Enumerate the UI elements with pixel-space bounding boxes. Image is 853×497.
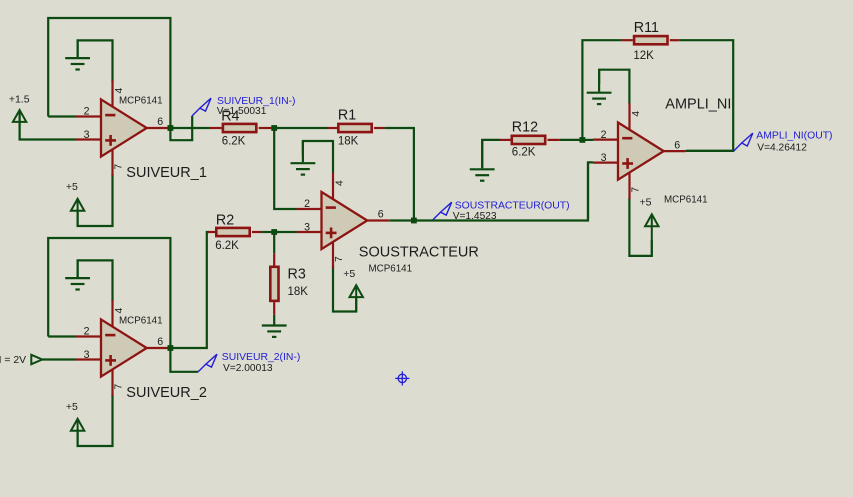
junction U1 output node (168, 125, 174, 131)
svg-text:R4: R4 (221, 109, 239, 125)
wire pin7 U4 to +5 (629, 198, 651, 256)
resistor R12 body (512, 136, 545, 144)
op-amp U4 pin 3 stub (593, 162, 618, 164)
op-amp U4 non-inverting mark (622, 158, 633, 169)
svg-text:7: 7 (334, 256, 345, 262)
op-amp U4 pin 2 stub (593, 139, 618, 141)
power +1.5 input wire (20, 111, 76, 140)
op-amp U2 pin 4 stub (332, 173, 334, 200)
power +5 terminal VP5 (645, 214, 658, 256)
svg-text:V=4.26412: V=4.26412 (757, 142, 807, 153)
op-amp U1 pin 7 stub (111, 149, 113, 176)
wire R4 left stub (210, 127, 222, 129)
wire output U4 (686, 150, 734, 152)
wire node to U2 pin3 (277, 231, 297, 233)
svg-text:+5: +5 (343, 268, 355, 280)
ground GND5 (R12) (470, 140, 495, 181)
svg-text:VI = 2V: VI = 2V (0, 355, 26, 366)
wire output U2 (389, 219, 412, 221)
svg-text:6: 6 (378, 209, 384, 221)
wire node to R1 (277, 127, 329, 129)
svg-text:SOUSTRACTEUR(OUT): SOUSTRACTEUR(OUT) (455, 200, 570, 211)
ground GND4 (U2 pin4) (291, 141, 316, 175)
svg-text:AMPLI_NI(OUT): AMPLI_NI(OUT) (756, 131, 832, 142)
svg-text:+5: +5 (640, 196, 652, 208)
svg-text:V=1.4523: V=1.4523 (453, 211, 497, 222)
wire probe stub U1 output (170, 116, 192, 140)
wire pin7 U1 to +5 (78, 174, 113, 226)
op-amp U2 (SOUSTRACTEUR) body triangle (322, 192, 368, 249)
svg-text:+5: +5 (66, 181, 78, 193)
svg-text:12K: 12K (633, 50, 654, 62)
wire R3 top stub (273, 233, 275, 253)
ground GND3 (R3) (262, 315, 287, 337)
op-amp U3 inverting mark (105, 334, 115, 337)
resistor R4 body (223, 124, 256, 132)
op-amp U1 non-inverting mark (105, 135, 116, 146)
wire R12 right stub (548, 139, 560, 141)
origin marker (395, 371, 409, 385)
svg-text:7: 7 (114, 163, 125, 169)
svg-text:+5: +5 (66, 401, 78, 413)
wire R1 right stub (374, 127, 385, 129)
ground GND1 (U1 pin4) (65, 40, 90, 69)
svg-text:SOUSTRACTEUR: SOUSTRACTEUR (359, 244, 479, 260)
power +5 terminal VP4 (350, 285, 363, 311)
power +1.5 terminal VP1 (13, 110, 26, 140)
op-amp U3 pin 3 stub (76, 358, 101, 360)
resistor R11 body (634, 36, 667, 44)
svg-text:18K: 18K (338, 136, 359, 148)
power +5 terminal VP2 (71, 199, 84, 226)
wire probe stub U3 output (170, 348, 198, 372)
resistor R2 body (216, 228, 249, 236)
svg-text:V=2.00013: V=2.00013 (223, 363, 273, 374)
op-amp U2 pin 2 stub (297, 208, 322, 210)
ground GND6 (U4 pin4) (587, 70, 612, 104)
wire U4 pin3 riser (587, 162, 589, 219)
svg-text:AMPLI_NI: AMPLI_NI (665, 97, 731, 113)
wire pin7 U3 to +5 (78, 394, 113, 446)
op-amp U3 pin 7 stub (111, 369, 113, 396)
wire junction to U4 pin2 (585, 139, 593, 141)
wire ground to pin4 U2 (303, 141, 333, 173)
op-amp U3 non-inverting mark (105, 355, 116, 366)
op-amp U1 pin 3 stub (76, 138, 101, 140)
wire R4 right stub (259, 127, 272, 129)
wire R11 left stub (622, 39, 633, 41)
svg-text:R12: R12 (512, 119, 538, 135)
svg-text:SUIVEUR_2: SUIVEUR_2 (126, 385, 207, 401)
svg-text:6: 6 (674, 139, 680, 151)
op-amp U2 pin 6 output stub (367, 219, 389, 221)
svg-text:+1.5: +1.5 (9, 94, 30, 106)
voltage probe SUIVEUR_1(IN-) (192, 98, 211, 116)
svg-text:2: 2 (304, 198, 310, 210)
junction U2 output node (411, 218, 417, 224)
svg-text:SUIVEUR_1: SUIVEUR_1 (126, 165, 207, 181)
svg-text:2: 2 (84, 326, 90, 338)
junction node R2/R3 (271, 229, 277, 235)
wire R3 bottom pin (273, 302, 275, 315)
wire pin2 U1 (48, 115, 76, 117)
voltage probe SOUSTRACTEUR(OUT) (433, 202, 452, 220)
svg-text:R1: R1 (338, 108, 356, 124)
wire R11 feedback loop right (680, 40, 734, 151)
wire feedback top U3 (48, 238, 170, 348)
svg-text:R2: R2 (216, 213, 234, 229)
svg-text:2: 2 (84, 106, 90, 118)
junction U3 output node (168, 345, 174, 351)
svg-text:4: 4 (114, 87, 125, 93)
svg-text:SUIVEUR_2(IN-): SUIVEUR_2(IN-) (222, 352, 301, 363)
op-amp U1 pin 2 stub (76, 115, 101, 117)
svg-text:6.2K: 6.2K (222, 136, 246, 148)
wire pin2 U3 (48, 335, 76, 337)
voltage probe SUIVEUR_2(IN-) (198, 354, 217, 372)
wire R2 right stub (252, 231, 262, 233)
svg-text:4: 4 (334, 180, 345, 186)
wire R1 left stub (328, 127, 337, 129)
op-amp U4 (AMPLI_NI) body triangle (618, 123, 664, 180)
op-amp U1 pin 4 stub (111, 80, 113, 107)
op-amp U4 inverting mark (622, 137, 632, 140)
svg-text:6.2K: 6.2K (215, 240, 239, 252)
svg-text:4: 4 (114, 307, 125, 313)
op-amp U4 pin 6 output stub (664, 150, 686, 152)
power +5 terminal VP3 (71, 419, 84, 446)
svg-text:MCP6141: MCP6141 (369, 264, 413, 275)
svg-text:3: 3 (601, 152, 607, 164)
resistor R3 body (270, 267, 278, 301)
wire R3 top pin (273, 253, 275, 265)
svg-text:7: 7 (631, 187, 642, 193)
op-amp U2 inverting mark (326, 206, 336, 209)
wire output U1 to R4 (170, 127, 209, 129)
svg-text:3: 3 (84, 129, 90, 141)
svg-text:6: 6 (157, 336, 163, 348)
svg-text:18K: 18K (288, 286, 309, 298)
op-amp U2 non-inverting mark (326, 228, 337, 239)
junction node R12/R11/U4 pin2 (580, 137, 586, 143)
op-amp U1 (SUIVEUR_1) body triangle (101, 99, 147, 156)
op-amp U1 pin 6 output stub (147, 127, 169, 129)
wire R11 right stub (670, 39, 680, 41)
resistor R1 body (338, 124, 371, 132)
wire ground to pin4 U3 (78, 260, 113, 302)
op-amp U1 inverting mark (105, 114, 115, 117)
wire input terminal to pin3 U3 (42, 358, 76, 360)
wire R12 left stub (500, 139, 511, 141)
voltage probe AMPLI_NI(OUT) (734, 133, 753, 151)
op-amp U4 pin 4 stub (628, 103, 630, 130)
svg-text:R3: R3 (288, 266, 306, 282)
wire pin7 U2 to +5 (333, 266, 356, 312)
wire R12 to junction (560, 139, 580, 141)
wire R11 feedback loop left (582, 40, 621, 138)
wire R2 left stub (208, 231, 215, 233)
wire node down to U2 pin2 (274, 128, 296, 209)
svg-text:4: 4 (631, 111, 642, 117)
op-amp U4 pin 7 stub (628, 173, 630, 200)
input terminal VI = 2V (31, 355, 42, 364)
wire feedback top U1 (48, 18, 170, 128)
wire U2 output to U4 pin3 riser (414, 162, 593, 220)
op-amp U3 pin 6 output stub (147, 347, 169, 349)
op-amp U3 pin 2 stub (76, 335, 101, 337)
wire ground to pin4 U1 (78, 40, 113, 82)
wire ground to pin4 U4 (599, 70, 629, 104)
svg-text:6: 6 (157, 116, 163, 128)
op-amp U3 (SUIVEUR_2) body triangle (101, 319, 147, 376)
svg-text:MCP6141: MCP6141 (664, 194, 708, 205)
wire R12 ground riser (482, 140, 500, 168)
op-amp U2 pin 7 stub (332, 242, 334, 269)
svg-text:7: 7 (114, 383, 125, 389)
op-amp U3 pin 4 stub (111, 300, 113, 327)
ground GND2 (U3 pin4) (65, 260, 90, 289)
svg-text:R11: R11 (634, 20, 659, 36)
wire R1 to U2 output (385, 128, 414, 218)
wire R2 to junction (262, 231, 272, 233)
wire output U3 to R2 riser (170, 232, 209, 348)
svg-text:2: 2 (601, 129, 607, 141)
op-amp U2 pin 3 stub (297, 231, 322, 233)
svg-text:MCP6141: MCP6141 (119, 95, 163, 106)
svg-text:3: 3 (84, 349, 90, 361)
svg-text:MCP6141: MCP6141 (119, 315, 163, 326)
svg-text:6.2K: 6.2K (512, 146, 536, 158)
svg-text:3: 3 (304, 222, 310, 234)
junction node R4/R1 (271, 125, 277, 131)
